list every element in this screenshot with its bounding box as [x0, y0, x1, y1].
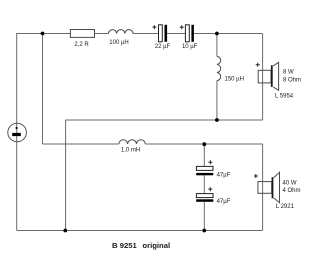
wire tweeter right vertical through speaker — [262, 34, 264, 121]
inductor 100uH coil — [108, 30, 133, 34]
speaker woofer L2921 — [254, 172, 280, 202]
wire left drop through input terminal — [16, 33, 18, 231]
wire 150uH branch lower stub — [216, 81, 218, 120]
wire branch drop at x=42.5 to woofer rail — [42, 34, 44, 145]
svg-text:10 µF: 10 µF — [182, 44, 198, 50]
svg-text:100 µH: 100 µH — [109, 40, 128, 46]
inductor 150uH vertical coil — [217, 56, 221, 81]
capacitor 10uF — [180, 25, 194, 42]
wire caps branch upper stub — [203, 144, 205, 166]
svg-text:original: original — [142, 241, 170, 250]
input terminal circle — [8, 123, 27, 142]
svg-text:1,0 mH: 1,0 mH — [121, 148, 140, 154]
wire 150uH branch upper stub — [216, 34, 218, 57]
capacitor 47uF lower — [196, 187, 213, 202]
svg-text:L 5954: L 5954 — [275, 94, 294, 100]
speaker tweeter L5954 — [256, 62, 279, 90]
svg-text:47µF: 47µF — [217, 173, 231, 179]
node junction dot top rail x=42.5 — [41, 32, 45, 36]
node junction dot caps bottom — [202, 229, 206, 233]
svg-text:8 W: 8 W — [283, 69, 294, 75]
svg-text:L 2921: L 2921 — [276, 204, 295, 210]
node junction dot caps top — [202, 142, 206, 146]
wire top rail segment 22uF to 10uF — [167, 33, 185, 35]
wire woofer rail left segment — [43, 143, 119, 145]
wire tweeter return rail — [66, 119, 263, 121]
wire top rail segment 100uH to 22uF — [133, 33, 158, 35]
wire woofer rail right segment — [145, 143, 262, 145]
node junction dot 150uH bottom — [215, 118, 219, 122]
svg-text:8 Ohm: 8 Ohm — [283, 77, 301, 83]
svg-text:150 µH: 150 µH — [225, 77, 244, 83]
node junction dot tweeter return bottom — [63, 229, 67, 233]
svg-text:B 9251: B 9251 — [112, 241, 138, 250]
capacitor 47uF upper — [196, 160, 213, 175]
inductor 1.0mH coil — [119, 140, 145, 144]
svg-text:22 µF: 22 µF — [155, 44, 171, 50]
wire caps branch lower stub — [203, 202, 205, 231]
svg-text:40 W: 40 W — [283, 180, 297, 186]
node junction dot 150uH top — [215, 32, 219, 36]
svg-text:47µF: 47µF — [217, 199, 231, 205]
wire bottom rail — [17, 230, 263, 232]
wire caps branch middle stub — [203, 175, 205, 193]
wire woofer right vertical through speaker — [262, 144, 264, 231]
resistor 2,2R — [70, 30, 94, 38]
wire top rail segment resistor to 100uH — [95, 33, 109, 35]
svg-text:4 Ohm: 4 Ohm — [283, 188, 301, 194]
wire top rail segment input to resistor — [17, 33, 71, 35]
wire tweeter return vertical to bottom rail — [65, 120, 67, 231]
capacitor 22uF — [152, 25, 167, 42]
svg-text:2,2 R: 2,2 R — [74, 42, 89, 48]
wire top rail segment 10uF to tweeter corner — [194, 33, 263, 35]
